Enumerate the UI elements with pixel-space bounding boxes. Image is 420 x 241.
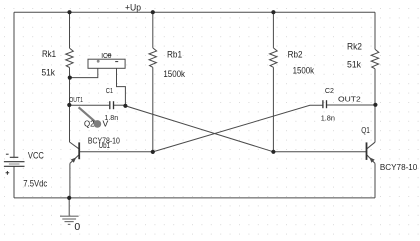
svg-text:Q2: Q2 (84, 119, 95, 129)
svg-text:Q1: Q1 (361, 125, 370, 135)
svg-text:OUT1: OUT1 (69, 95, 83, 104)
svg-text:V: V (103, 118, 109, 128)
svg-text:Rk2: Rk2 (347, 42, 362, 52)
svg-text:Rk1: Rk1 (42, 49, 56, 59)
svg-text:VCC: VCC (28, 151, 44, 161)
svg-text:IC0: IC0 (101, 51, 111, 60)
svg-text:BCY78-10: BCY78-10 (380, 162, 418, 172)
svg-text:1500k: 1500k (293, 65, 315, 75)
svg-text:1500k: 1500k (163, 69, 185, 79)
svg-text:Rb2: Rb2 (288, 50, 303, 60)
svg-text:1.8n: 1.8n (321, 114, 335, 123)
svg-text:OUT2: OUT2 (338, 94, 361, 103)
svg-text:51k: 51k (347, 60, 361, 70)
svg-text:C1: C1 (106, 86, 113, 95)
svg-text:Rb1: Rb1 (167, 50, 182, 60)
svg-text:51k: 51k (42, 68, 56, 78)
svg-text:C2: C2 (325, 86, 334, 95)
svg-text:0: 0 (74, 221, 80, 233)
svg-text:Ub1: Ub1 (99, 140, 111, 150)
svg-text:7.5Vdc: 7.5Vdc (23, 179, 47, 189)
svg-text:+Up: +Up (125, 2, 141, 12)
